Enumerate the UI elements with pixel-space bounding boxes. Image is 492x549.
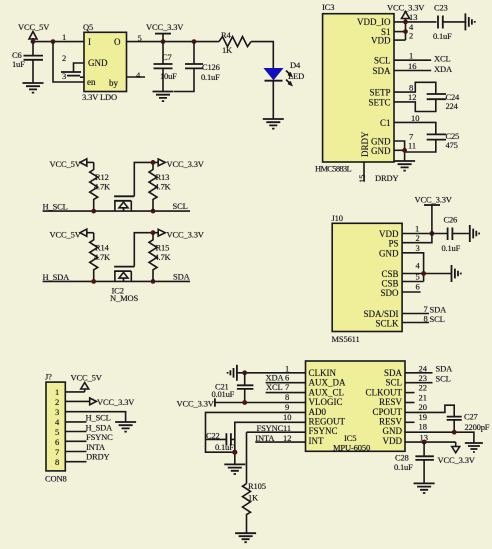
svg-text:C7: C7 bbox=[162, 52, 172, 62]
svg-text:23: 23 bbox=[419, 373, 428, 383]
svg-text:GND: GND bbox=[371, 137, 391, 147]
svg-text:HMC5883L: HMC5883L bbox=[315, 164, 351, 174]
svg-text:0.1uF: 0.1uF bbox=[394, 462, 413, 472]
svg-text:H_SDA: H_SDA bbox=[43, 272, 71, 282]
pin 4 S1 stub bbox=[394, 31, 406, 33]
svg-text:224: 224 bbox=[446, 101, 459, 111]
ground (below REGOUT) bbox=[224, 464, 245, 474]
svg-text:DRDY: DRDY bbox=[86, 452, 110, 462]
svg-text:AUX_DA: AUX_DA bbox=[309, 378, 346, 388]
node GND join bbox=[402, 148, 407, 153]
svg-text:FSYNC: FSYNC bbox=[86, 432, 113, 442]
svg-text:GND: GND bbox=[371, 146, 391, 156]
svg-text:AD0: AD0 bbox=[309, 407, 327, 417]
pin 10 REGOUT wire down to ground bbox=[235, 422, 306, 464]
svg-text:SETP: SETP bbox=[369, 88, 390, 98]
svg-text:SETC: SETC bbox=[368, 98, 390, 108]
ground (below C7) bbox=[153, 92, 174, 102]
svg-text:DRDY: DRDY bbox=[360, 131, 370, 157]
svg-text:XDA: XDA bbox=[434, 64, 453, 74]
capacitor C22 0.1uF bbox=[206, 431, 235, 452]
pin 22 CLKOUT stub bbox=[405, 392, 415, 394]
resistor R105 1K bbox=[243, 481, 266, 533]
svg-text:GND: GND bbox=[379, 248, 399, 258]
capacitor C26 0.1uF bbox=[442, 215, 470, 254]
svg-text:11: 11 bbox=[408, 141, 416, 151]
svg-text:IC5: IC5 bbox=[344, 433, 356, 443]
ground (below GND pins) bbox=[394, 152, 415, 171]
svg-text:8: 8 bbox=[55, 457, 59, 467]
pin 8 SETP wire bbox=[394, 82, 436, 94]
pin 6 SDO stub bbox=[402, 291, 421, 293]
svg-text:Q5: Q5 bbox=[83, 22, 93, 32]
svg-text:2: 2 bbox=[409, 31, 413, 41]
svg-text:VCC_5V: VCC_5V bbox=[71, 373, 103, 383]
svg-text:IC3: IC3 bbox=[322, 2, 334, 12]
svg-text:C27: C27 bbox=[464, 412, 478, 422]
svg-text:24: 24 bbox=[419, 364, 428, 374]
svg-text:CLKOUT: CLKOUT bbox=[366, 387, 403, 397]
pin 5 wire, net H_SDA bbox=[65, 431, 86, 433]
pin 9 AD0 loop wire bbox=[206, 412, 306, 452]
pin 16 SDA wire, net XDA bbox=[394, 70, 431, 72]
svg-text:XCL: XCL bbox=[434, 54, 451, 64]
svg-text:1K: 1K bbox=[248, 493, 259, 503]
svg-text:VCC_3.3V: VCC_3.3V bbox=[97, 397, 135, 407]
svg-text:AUX_CL: AUX_CL bbox=[309, 387, 345, 397]
pin 11 GND stub bbox=[394, 149, 405, 151]
svg-text:R15: R15 bbox=[156, 243, 170, 253]
svg-text:R12: R12 bbox=[95, 172, 109, 182]
svg-text:13: 13 bbox=[409, 12, 418, 22]
power VCC_3.3V (lower shifter) bbox=[158, 229, 205, 239]
svg-text:4.7K: 4.7K bbox=[94, 252, 111, 262]
barometer J10 MS5611 bbox=[332, 213, 403, 344]
svg-text:PS: PS bbox=[388, 238, 398, 248]
svg-text:0.1uF: 0.1uF bbox=[215, 442, 234, 452]
svg-text:C26: C26 bbox=[444, 215, 458, 225]
svg-text:10: 10 bbox=[283, 412, 292, 422]
svg-text:16: 16 bbox=[408, 61, 417, 71]
svg-text:RESV: RESV bbox=[379, 397, 403, 407]
pin 2 stub + ground (LDO gnd) bbox=[61, 63, 84, 77]
pin 8 SCLK stub, net SCL bbox=[402, 322, 429, 324]
svg-text:5: 5 bbox=[55, 427, 59, 437]
svg-text:GND: GND bbox=[88, 58, 108, 68]
wire H_SCL to SCL bbox=[43, 210, 190, 212]
svg-text:VDD: VDD bbox=[383, 436, 403, 446]
svg-text:7: 7 bbox=[285, 382, 289, 392]
ground (right, below GND18) bbox=[465, 443, 483, 452]
svg-text:10: 10 bbox=[411, 113, 420, 123]
svg-text:VCC_3.3V: VCC_3.3V bbox=[146, 22, 184, 32]
svg-text:J?: J? bbox=[45, 372, 52, 382]
pin 12 INT wire, net INTA bbox=[255, 441, 305, 443]
svg-text:VCC_3.3V: VCC_3.3V bbox=[167, 229, 205, 239]
pin 7 AUX_CL wire, net XCL bbox=[266, 392, 306, 394]
svg-text:SDA: SDA bbox=[372, 66, 391, 76]
node R15 top bbox=[151, 230, 156, 235]
resistor R13 4.7K bbox=[149, 162, 172, 211]
svg-text:H_SDA: H_SDA bbox=[86, 422, 114, 432]
svg-text:VDD: VDD bbox=[371, 36, 391, 46]
node C27 to GND wire bbox=[452, 430, 457, 435]
svg-text:6: 6 bbox=[285, 373, 289, 383]
LED D4 bbox=[265, 60, 305, 119]
svg-text:VDD: VDD bbox=[379, 229, 399, 239]
power VCC_3.3V (bar) bbox=[146, 22, 184, 42]
svg-text:18: 18 bbox=[419, 422, 428, 432]
pin 10 C1 wire bbox=[394, 122, 436, 134]
ground (left of CLKIN, rotated) bbox=[228, 365, 237, 381]
svg-text:RESV: RESV bbox=[379, 417, 403, 427]
svg-text:1: 1 bbox=[409, 51, 413, 61]
wire FSYNC down to R105 bbox=[246, 432, 248, 483]
svg-text:0.1uF: 0.1uF bbox=[442, 243, 461, 253]
node at C6 bbox=[31, 39, 36, 44]
pin 7 wire, net INTA bbox=[65, 451, 86, 453]
svg-text:R105: R105 bbox=[248, 481, 266, 491]
svg-text:5: 5 bbox=[416, 272, 420, 282]
svg-text:6: 6 bbox=[416, 282, 420, 292]
power VCC_3.3V (bar above) bbox=[415, 195, 453, 234]
ground (right of C26, rotated) bbox=[470, 225, 479, 242]
ground (below R105) bbox=[235, 533, 256, 542]
pin 4 CSB wire to ground bbox=[402, 273, 451, 275]
svg-text:1K: 1K bbox=[222, 45, 233, 55]
pin 15 DRDY wire bbox=[363, 162, 365, 182]
svg-text:by: by bbox=[109, 78, 119, 88]
node at C7 bbox=[161, 39, 166, 44]
svg-text:O: O bbox=[114, 37, 121, 47]
ground (right of C23, rotated) bbox=[465, 13, 474, 30]
pin 1 CLKIN wire to ground bbox=[237, 372, 305, 374]
wire pin5 output bbox=[127, 41, 220, 43]
pin 19 RESV stub bbox=[405, 421, 415, 423]
node VDD bbox=[430, 231, 435, 236]
svg-text:SDA: SDA bbox=[384, 368, 403, 378]
svg-text:VCC_3.3V: VCC_3.3V bbox=[387, 3, 425, 13]
svg-text:FSYNC: FSYNC bbox=[257, 423, 284, 433]
svg-text:2200pF: 2200pF bbox=[465, 422, 490, 432]
svg-text:en: en bbox=[87, 77, 96, 87]
svg-text:10uF: 10uF bbox=[160, 71, 177, 81]
pin 12 SETC wire bbox=[394, 99, 436, 111]
svg-text:CSB: CSB bbox=[381, 278, 398, 288]
svg-text:MS5611: MS5611 bbox=[332, 334, 360, 344]
svg-text:8: 8 bbox=[409, 83, 413, 93]
svg-text:H_SCL: H_SCL bbox=[86, 413, 111, 423]
pin 6 wire, net FSYNC bbox=[65, 440, 86, 442]
svg-text:20: 20 bbox=[419, 402, 428, 412]
pin 18 GND wire bbox=[405, 432, 474, 442]
svg-text:7: 7 bbox=[424, 304, 428, 314]
svg-text:12: 12 bbox=[283, 433, 292, 443]
transistor Q (SCL mosfet) bbox=[114, 162, 158, 211]
svg-text:GND: GND bbox=[383, 426, 403, 436]
svg-text:VCC_3.3V: VCC_3.3V bbox=[167, 159, 205, 169]
power VCC_3.3V (upper shifter, arrow right) bbox=[158, 159, 205, 169]
pin 2 PS wire tied to VDD bbox=[402, 234, 432, 243]
pin 1 VDD wire bbox=[402, 233, 447, 235]
resistor R4 1K bbox=[219, 30, 251, 55]
node AD0 loop join bbox=[232, 450, 237, 455]
svg-text:REGOUT: REGOUT bbox=[309, 417, 346, 427]
svg-text:8: 8 bbox=[424, 314, 428, 324]
capacitor C23 0.1uF bbox=[433, 3, 466, 42]
svg-text:DRDY: DRDY bbox=[375, 173, 399, 183]
power VCC_3.3V (arrow down) bbox=[438, 442, 476, 465]
wire VDD bus vertical bbox=[405, 22, 407, 40]
node R13 bottom bbox=[151, 209, 156, 214]
svg-text:VDD_IO: VDD_IO bbox=[357, 17, 391, 27]
pin 1 wire to VCC_5V bbox=[65, 391, 84, 393]
svg-text:I: I bbox=[88, 37, 91, 47]
svg-text:VCC_5V: VCC_5V bbox=[50, 229, 82, 239]
svg-text:15: 15 bbox=[357, 175, 367, 184]
resistor R14 4.7K bbox=[90, 233, 111, 282]
svg-text:8: 8 bbox=[285, 392, 289, 402]
svg-text:C1: C1 bbox=[380, 118, 391, 128]
svg-text:4.7K: 4.7K bbox=[94, 182, 111, 192]
ground (below pin3 wire) bbox=[115, 422, 136, 432]
svg-text:SCL: SCL bbox=[374, 56, 391, 66]
svg-text:SDO: SDO bbox=[380, 288, 399, 298]
node R12 bottom bbox=[91, 209, 96, 214]
svg-text:J10: J10 bbox=[332, 213, 343, 223]
svg-text:SCL: SCL bbox=[430, 314, 445, 324]
svg-text:475: 475 bbox=[446, 140, 458, 150]
svg-text:0.1uF: 0.1uF bbox=[201, 72, 220, 82]
svg-text:VLOGIC: VLOGIC bbox=[309, 397, 343, 407]
node C21 bottom on VLOGIC wire bbox=[242, 400, 247, 405]
pin 2 wire to VCC_3.3V (arrow right) bbox=[65, 397, 135, 407]
svg-text:C22: C22 bbox=[206, 431, 220, 441]
ground (below C28) bbox=[414, 483, 435, 493]
svg-text:0.1uF: 0.1uF bbox=[433, 31, 452, 41]
pin 21 RESV stub bbox=[405, 402, 415, 404]
node R13 top bbox=[151, 160, 156, 165]
pin 8 VLOGIC wire to VCC_3.3V (bar) bbox=[177, 398, 306, 408]
svg-text:1uF: 1uF bbox=[12, 59, 25, 69]
svg-text:CLKIN: CLKIN bbox=[309, 368, 337, 378]
ground (right of CSB, rotated) bbox=[452, 265, 461, 282]
svg-text:0.01uF: 0.01uF bbox=[212, 389, 235, 399]
svg-text:3: 3 bbox=[62, 71, 66, 81]
svg-text:6: 6 bbox=[55, 437, 59, 447]
svg-text:3: 3 bbox=[416, 243, 420, 253]
svg-text:CPOUT: CPOUT bbox=[372, 407, 402, 417]
svg-text:D4: D4 bbox=[290, 60, 301, 70]
svg-text:SCLK: SCLK bbox=[375, 318, 399, 328]
svg-text:VCC_3.3V: VCC_3.3V bbox=[438, 455, 476, 465]
svg-text:SDA: SDA bbox=[436, 364, 454, 374]
svg-text:1: 1 bbox=[62, 32, 66, 42]
svg-text:VCC_3.3V: VCC_3.3V bbox=[415, 195, 453, 205]
capacitor C6 1uF bbox=[12, 42, 43, 83]
svg-text:VCC_5V: VCC_5V bbox=[50, 159, 82, 169]
svg-text:INTA: INTA bbox=[255, 433, 275, 443]
svg-text:1: 1 bbox=[415, 224, 419, 234]
svg-text:3.3V LDO: 3.3V LDO bbox=[82, 92, 117, 102]
pin 3 GND wire bbox=[402, 253, 424, 282]
pin 13 VDD_IO wire bbox=[394, 21, 437, 23]
power VCC_5V (lower shifter) bbox=[50, 229, 94, 239]
pin 20 CPOUT wire to C27 bbox=[405, 405, 454, 416]
svg-text:FSYNC: FSYNC bbox=[309, 426, 338, 436]
node VDD / C28 bbox=[422, 440, 427, 445]
svg-text:4.7K: 4.7K bbox=[155, 182, 172, 192]
svg-text:R14: R14 bbox=[95, 243, 110, 253]
wire pin1 LDO input bbox=[33, 41, 84, 43]
svg-text:2: 2 bbox=[62, 53, 66, 63]
connector J? CON8 bbox=[45, 372, 67, 484]
pin 13 VDD wire bbox=[405, 441, 456, 443]
node pin4 bbox=[403, 29, 408, 34]
capacitor C24 224 bbox=[427, 92, 460, 111]
svg-text:VCC_3.3V: VCC_3.3V bbox=[177, 398, 215, 408]
resistor R12 4.7K bbox=[90, 162, 111, 211]
svg-text:7: 7 bbox=[55, 447, 59, 457]
pin 11 FSYNC wire, net FSYNC bbox=[247, 431, 306, 433]
svg-text:SCL: SCL bbox=[173, 201, 188, 211]
capacitor C28 0.1uF bbox=[394, 442, 434, 483]
pin 8 wire, net DRDY bbox=[65, 461, 86, 463]
svg-text:N_MOS: N_MOS bbox=[110, 293, 138, 303]
pin 4 stub (by) bbox=[127, 76, 146, 78]
svg-text:R13: R13 bbox=[156, 172, 170, 182]
svg-text:11: 11 bbox=[283, 423, 291, 433]
capacitor C7 10uF bbox=[154, 42, 178, 92]
svg-text:SCL: SCL bbox=[436, 374, 451, 384]
pin 23 SCL wire, net SCL bbox=[405, 382, 433, 384]
svg-text:19: 19 bbox=[419, 412, 428, 422]
capacitor C25 475 bbox=[427, 131, 459, 150]
capacitor C27 2200pF bbox=[447, 412, 490, 433]
svg-text:CON8: CON8 bbox=[45, 474, 67, 484]
pin 7 GND stub bbox=[394, 141, 405, 152]
pin 2 VDD stub bbox=[394, 39, 406, 41]
svg-text:C126: C126 bbox=[202, 62, 220, 72]
svg-text:3: 3 bbox=[55, 407, 59, 417]
node R15 bottom bbox=[151, 279, 156, 284]
svg-text:C28: C28 bbox=[395, 453, 409, 463]
magnetometer IC3 HMC5883L bbox=[315, 2, 394, 174]
svg-text:VCC_5V: VCC_5V bbox=[18, 22, 50, 32]
svg-text:C23: C23 bbox=[434, 3, 448, 13]
svg-text:4.7K: 4.7K bbox=[155, 252, 172, 262]
pin 6 AUX_DA wire, net XDA bbox=[266, 382, 306, 384]
power VCC_5V (top-left) bbox=[18, 22, 50, 42]
regulator Q5 3.3V LDO bbox=[62, 22, 142, 102]
pin 7 SDA/SDI stub, net SDA bbox=[402, 313, 429, 315]
svg-text:INTA: INTA bbox=[86, 442, 106, 452]
svg-text:2: 2 bbox=[55, 397, 59, 407]
svg-text:22: 22 bbox=[419, 383, 428, 393]
node CSB join bbox=[421, 271, 426, 276]
wire H_SDA to SDA bbox=[43, 280, 190, 282]
svg-text:MPU-6050: MPU-6050 bbox=[333, 443, 370, 453]
pin 24 SDA wire, net SDA bbox=[405, 372, 433, 374]
node pin13 bbox=[403, 20, 408, 25]
svg-text:21: 21 bbox=[419, 392, 428, 402]
power VCC_5V (upper shifter, arrow left) bbox=[50, 159, 94, 169]
node CLKIN / C21 bbox=[242, 370, 247, 375]
svg-text:2: 2 bbox=[416, 233, 420, 243]
resistor R15 4.7K bbox=[149, 233, 172, 282]
svg-text:9: 9 bbox=[285, 402, 289, 412]
imu IC5 MPU-6050 bbox=[306, 361, 406, 453]
ground (below LED) bbox=[263, 119, 284, 129]
transistor IC2 N_MOS (SDA mosfet) bbox=[110, 233, 158, 303]
ground (below C6) bbox=[23, 83, 44, 93]
svg-text:SDA: SDA bbox=[173, 272, 191, 282]
power VCC_5V (arrow up) bbox=[71, 373, 103, 392]
svg-text:XCL: XCL bbox=[266, 382, 283, 392]
capacitor C21 0.01uF bbox=[212, 373, 254, 403]
svg-text:1: 1 bbox=[55, 387, 59, 397]
svg-text:INT: INT bbox=[309, 436, 324, 446]
svg-text:CSB: CSB bbox=[381, 269, 398, 279]
node R14 bottom bbox=[91, 279, 96, 284]
pin 5 CSB wire bbox=[402, 281, 424, 283]
wire C25 to GND pins bbox=[405, 140, 436, 152]
pin 1 SCL wire, net XCL bbox=[394, 59, 431, 61]
svg-text:XDA: XDA bbox=[266, 373, 285, 383]
svg-text:12: 12 bbox=[408, 92, 417, 102]
wire en tie to input bbox=[53, 42, 84, 82]
wire R4 to LED bbox=[251, 42, 273, 69]
pin 3 wire to ground bbox=[65, 412, 125, 422]
svg-text:SDA: SDA bbox=[430, 305, 448, 315]
node at C126 bbox=[192, 39, 197, 44]
pin 4 wire, net H_SCL bbox=[65, 421, 86, 423]
node at en tap bbox=[51, 39, 56, 44]
power VCC_3.3V (arrow up) bbox=[387, 3, 425, 22]
svg-text:H_SCL: H_SCL bbox=[43, 202, 68, 212]
capacitor C126 0.1uF bbox=[174, 42, 220, 92]
svg-text:SCL: SCL bbox=[385, 378, 402, 388]
